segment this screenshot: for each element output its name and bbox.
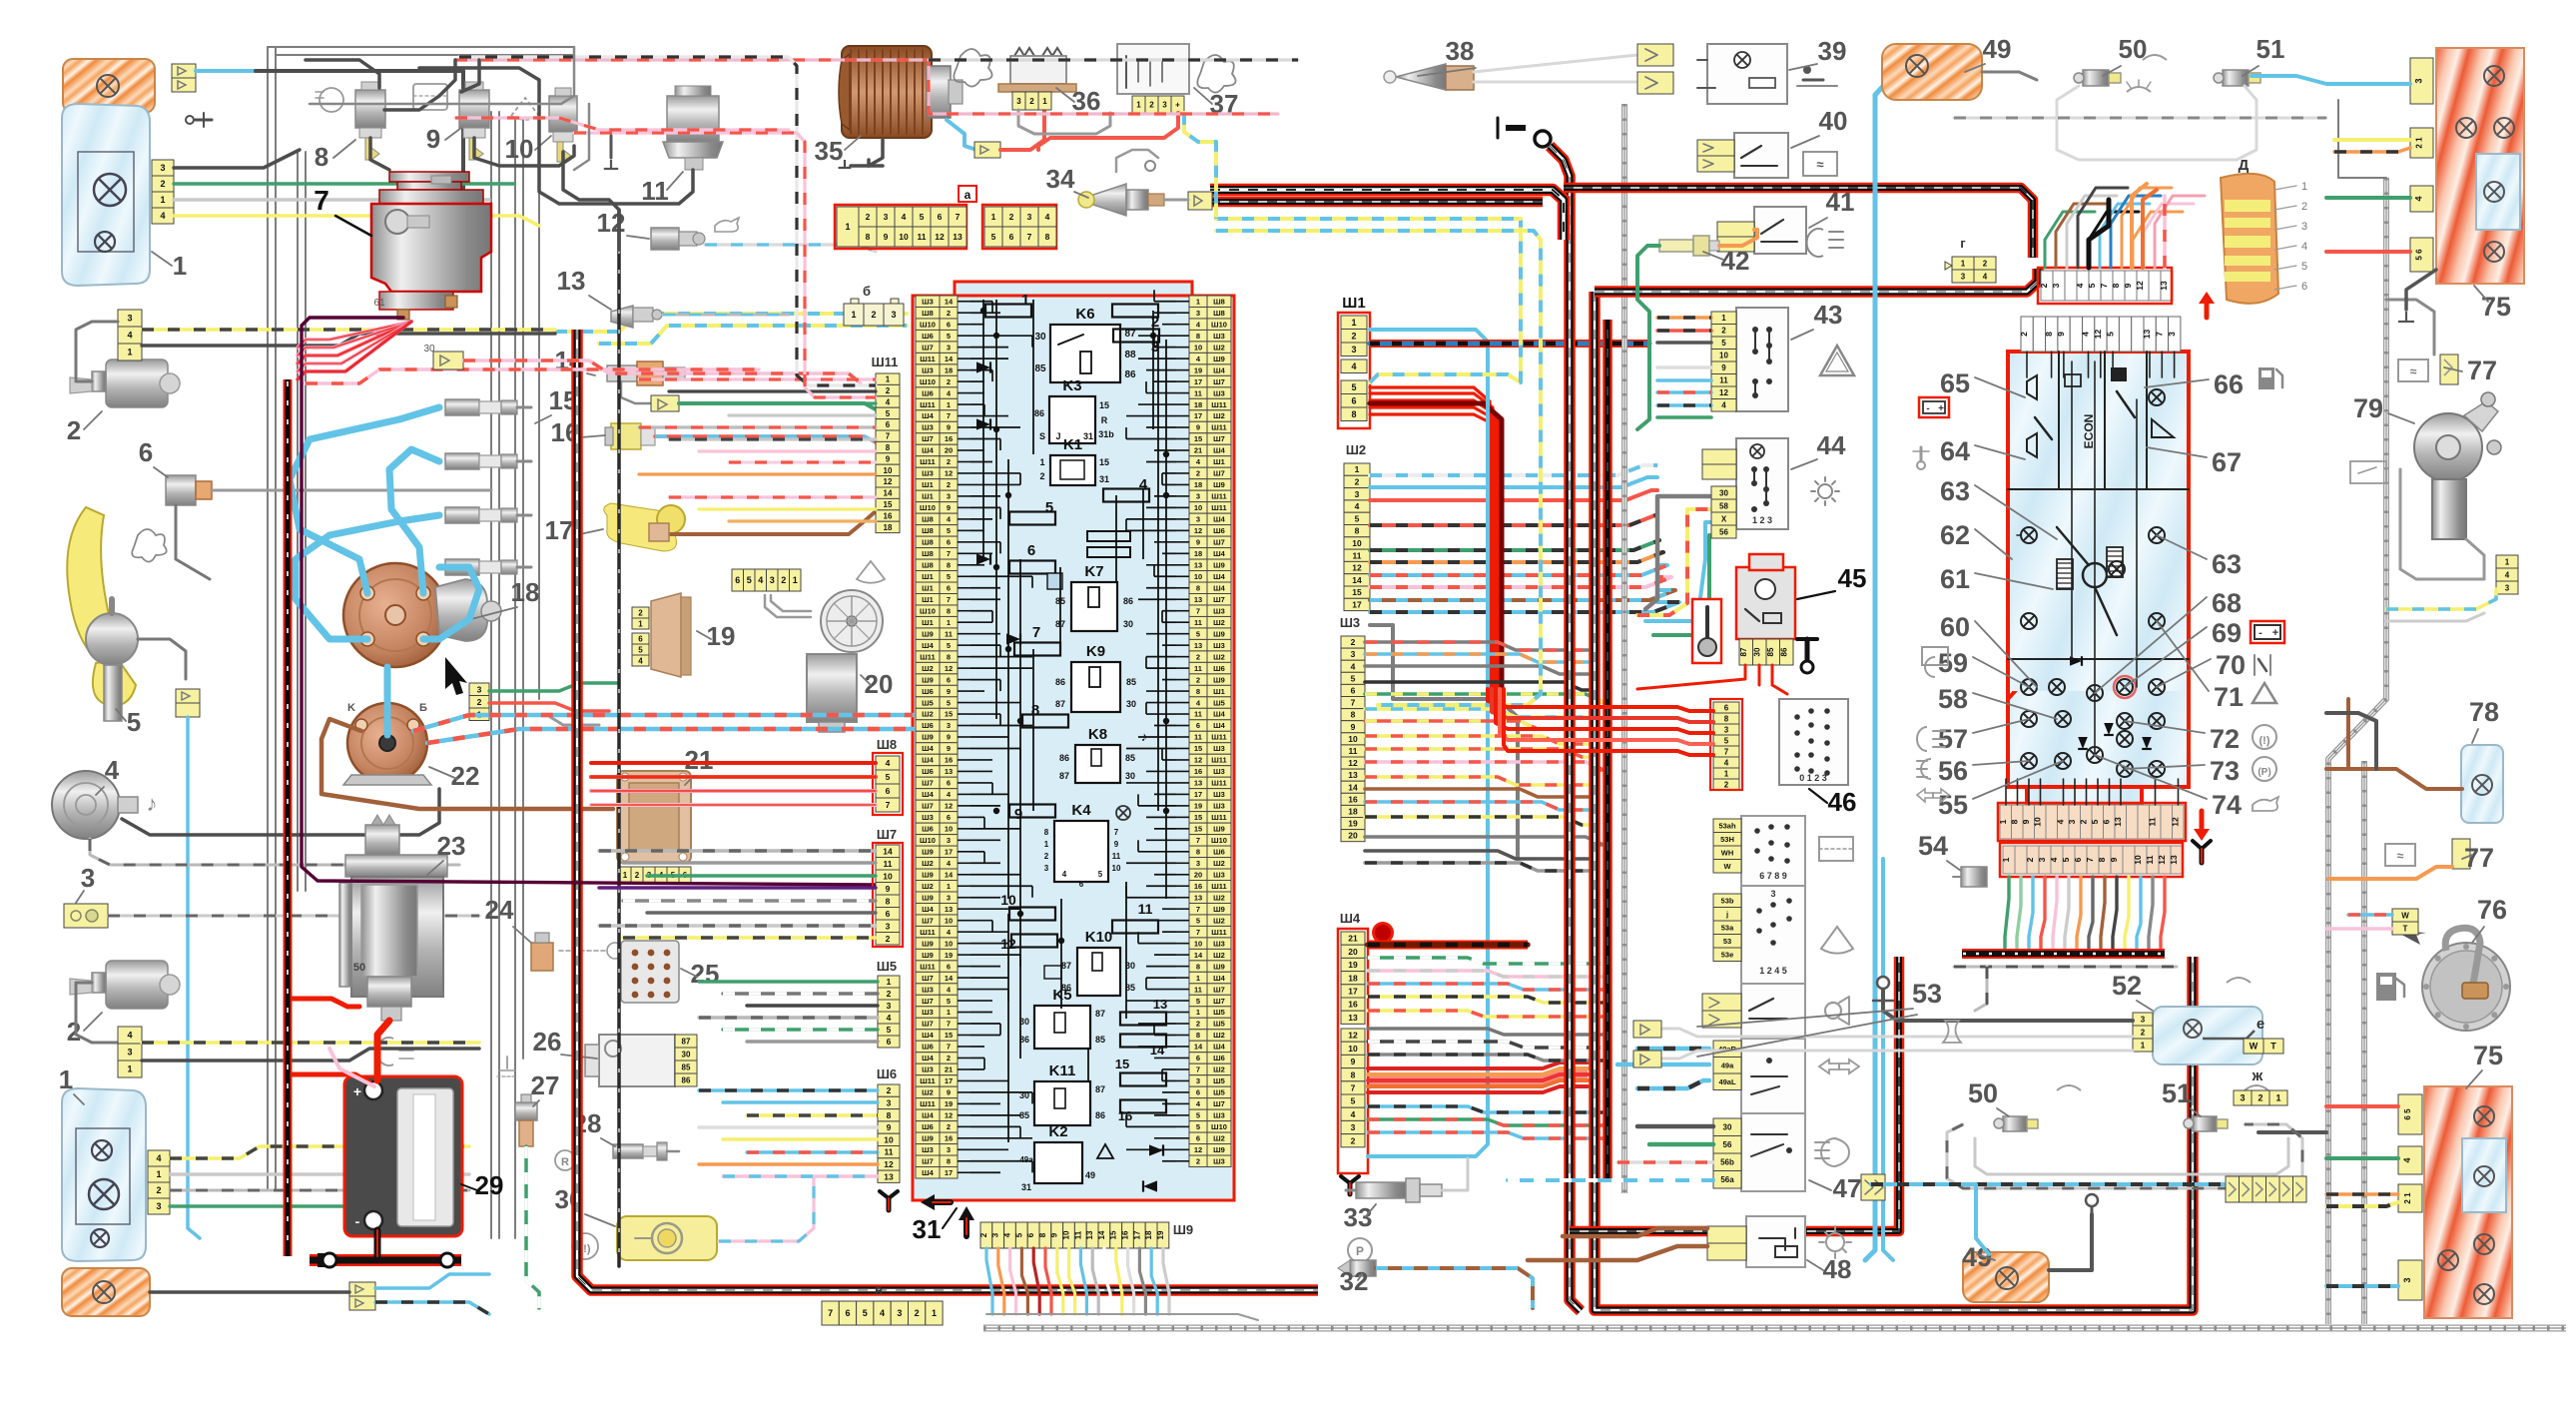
blower motor 35 bbox=[839, 46, 963, 138]
svg-text:8: 8 bbox=[1196, 583, 1200, 592]
svg-text:30: 30 bbox=[1034, 332, 1046, 343]
harness top link bbox=[1210, 190, 1564, 240]
svg-text:3: 3 bbox=[2067, 819, 2077, 824]
red arrow down bbox=[2194, 811, 2210, 841]
svg-text:11: 11 bbox=[2145, 855, 2155, 864]
svg-text:16: 16 bbox=[884, 511, 893, 520]
fuse F10 bbox=[1009, 908, 1055, 921]
speed sensor 13 bbox=[611, 306, 662, 328]
fuel sender 76 bbox=[2422, 928, 2510, 1031]
svg-text:Ш1: Ш1 bbox=[922, 480, 934, 489]
connector Ш9 bottom row bbox=[979, 1222, 1169, 1248]
harness horizontal to instrument bbox=[1595, 269, 2038, 292]
wire yellow-cyan vertical harness bbox=[1216, 217, 1521, 221]
svg-text:4: 4 bbox=[2075, 283, 2085, 288]
svg-text:5 6: 5 6 bbox=[2415, 249, 2424, 261]
svg-text:8: 8 bbox=[1196, 332, 1200, 341]
wire bundle into Ш7 bbox=[599, 851, 876, 938]
svg-text:85: 85 bbox=[682, 1063, 691, 1071]
svg-text:5: 5 bbox=[886, 409, 891, 418]
door switch 50 top bbox=[2074, 70, 2121, 86]
svg-text:50: 50 bbox=[2119, 34, 2148, 64]
svg-text:8: 8 bbox=[886, 443, 891, 452]
connector 40 yellow bbox=[1697, 140, 1734, 156]
svg-text:Ш3: Ш3 bbox=[1213, 744, 1225, 753]
wire 36 gray loop bbox=[1018, 110, 1110, 134]
connector 46 pins bbox=[1713, 702, 1739, 713]
svg-text:2: 2 bbox=[1196, 652, 1200, 661]
lamp icon K4 bbox=[1116, 806, 1130, 820]
svg-text:10: 10 bbox=[2133, 855, 2143, 865]
svg-text:4: 4 bbox=[127, 1031, 132, 1041]
svg-text:3: 3 bbox=[2051, 283, 2061, 288]
svg-text:15: 15 bbox=[1194, 825, 1202, 834]
svg-text:2: 2 bbox=[1039, 471, 1044, 481]
svg-text:2: 2 bbox=[2025, 857, 2035, 862]
svg-text:11: 11 bbox=[1073, 1230, 1082, 1239]
wire bundle Ш4 dark red hot bbox=[1368, 1063, 1588, 1092]
svg-text:1: 1 bbox=[1961, 259, 1966, 268]
svg-text:2 1: 2 1 bbox=[2415, 137, 2424, 149]
svg-text:8: 8 bbox=[947, 652, 951, 661]
wire bottom page bus bbox=[983, 1325, 2566, 1332]
svg-text:9: 9 bbox=[2021, 819, 2031, 824]
wire yellow-red to 44-58 bbox=[1637, 509, 1711, 615]
svg-text:14: 14 bbox=[945, 974, 954, 983]
svg-text:79: 79 bbox=[2353, 393, 2383, 423]
key icon 45 bbox=[1692, 599, 1721, 663]
svg-text:R: R bbox=[561, 1156, 569, 1168]
svg-text:6: 6 bbox=[947, 813, 951, 822]
svg-text:Ш10: Ш10 bbox=[1211, 1122, 1227, 1131]
door switch 51 top bbox=[2214, 70, 2260, 86]
svg-text:5: 5 bbox=[863, 1308, 868, 1318]
svg-text:5: 5 bbox=[991, 232, 996, 242]
svg-text:5: 5 bbox=[2087, 283, 2097, 288]
svg-text:9: 9 bbox=[1351, 1057, 1356, 1066]
svg-text:Ш5: Ш5 bbox=[1213, 698, 1225, 707]
tail lamp 75 bottom pins bbox=[2398, 1094, 2422, 1300]
svg-text:K9: K9 bbox=[1086, 643, 1105, 660]
svg-text:3: 3 bbox=[1351, 345, 1356, 354]
svg-text:6: 6 bbox=[1196, 721, 1200, 730]
icon fuel 76 bbox=[2376, 973, 2404, 1001]
connector 17 tan bbox=[649, 523, 669, 541]
svg-text:5: 5 bbox=[947, 572, 951, 581]
svg-text:8: 8 bbox=[1724, 714, 1729, 723]
relay K7 bbox=[1071, 582, 1117, 631]
svg-text:Ш6: Ш6 bbox=[1213, 1054, 1225, 1063]
svg-text:5: 5 bbox=[1045, 499, 1053, 516]
svg-text:55: 55 bbox=[1938, 790, 1968, 820]
wire gray extra top2 bbox=[461, 60, 479, 92]
svg-text:56: 56 bbox=[1719, 527, 1728, 536]
svg-text:a: a bbox=[965, 188, 971, 202]
svg-text:4: 4 bbox=[156, 1153, 161, 1163]
svg-text:12: 12 bbox=[1194, 1145, 1202, 1154]
svg-text:3: 3 bbox=[947, 492, 951, 501]
svg-text:6: 6 bbox=[845, 1308, 850, 1318]
svg-text:Ш4: Ш4 bbox=[922, 1031, 935, 1040]
svg-text:2: 2 bbox=[67, 1017, 81, 1047]
svg-text:58: 58 bbox=[1719, 501, 1728, 510]
battery 29 bbox=[344, 1076, 462, 1236]
svg-text:Ш8: Ш8 bbox=[1213, 309, 1225, 318]
turn arrows icon bbox=[1819, 1060, 1859, 1073]
svg-text:7: 7 bbox=[947, 1043, 951, 1052]
svg-text:1 2 4 5: 1 2 4 5 bbox=[1759, 966, 1787, 976]
svg-text:8: 8 bbox=[2097, 857, 2107, 862]
diode D4 bbox=[1006, 633, 1020, 644]
svg-text:11: 11 bbox=[1353, 550, 1362, 560]
heater switch 37 bbox=[1117, 44, 1189, 94]
icon oil 12 bbox=[715, 218, 739, 232]
svg-text:7: 7 bbox=[1032, 624, 1040, 641]
svg-text:8: 8 bbox=[887, 1110, 892, 1120]
connector strip 654321 bbox=[732, 569, 801, 591]
svg-text:11: 11 bbox=[945, 629, 953, 638]
svg-text:4: 4 bbox=[1003, 1232, 1012, 1237]
svg-text:12: 12 bbox=[2170, 817, 2180, 827]
svg-text:Ш4: Ш4 bbox=[1213, 721, 1226, 730]
svg-text:Ш2: Ш2 bbox=[1213, 893, 1225, 902]
svg-text:K5: K5 bbox=[1052, 987, 1071, 1004]
icon fuel pump 66 bbox=[2258, 367, 2282, 389]
svg-text:30: 30 bbox=[1723, 1123, 1732, 1132]
svg-text:26: 26 bbox=[533, 1027, 562, 1057]
icon parking 73 bbox=[2253, 757, 2276, 781]
svg-text:W: W bbox=[2250, 1042, 2258, 1052]
horn 17 bbox=[604, 503, 685, 551]
svg-text:WH: WH bbox=[1721, 848, 1734, 857]
svg-text:61: 61 bbox=[1940, 564, 1970, 594]
svg-text:2: 2 bbox=[477, 697, 482, 707]
wire drops from instrument strip bbox=[2005, 877, 2165, 950]
svg-text:4: 4 bbox=[105, 755, 120, 785]
wire Ш4-18 dark red bbox=[1368, 941, 1528, 950]
wire lamp bottom bbox=[150, 1290, 349, 1294]
svg-text:5: 5 bbox=[920, 212, 925, 222]
capacitor 24 bbox=[531, 933, 553, 971]
svg-text:T: T bbox=[2403, 924, 2408, 933]
warning lamp 30 bbox=[617, 1216, 717, 1260]
svg-text:10: 10 bbox=[2032, 817, 2042, 827]
svg-text:6: 6 bbox=[1196, 1054, 1200, 1063]
svg-text:5: 5 bbox=[1724, 736, 1729, 745]
svg-text:2: 2 bbox=[1724, 780, 1729, 789]
svg-text:6: 6 bbox=[947, 962, 951, 971]
icon exclam 72 bbox=[2253, 725, 2276, 749]
svg-text:9: 9 bbox=[947, 1088, 951, 1097]
wire 17 brown bbox=[667, 511, 876, 534]
svg-text:R: R bbox=[1101, 415, 1108, 425]
svg-text:5: 5 bbox=[887, 1025, 892, 1035]
wire 2 loop bbox=[76, 322, 118, 381]
svg-text:Ш11: Ш11 bbox=[920, 1099, 935, 1108]
svg-text:9: 9 bbox=[2123, 283, 2133, 288]
svg-text:1: 1 bbox=[2275, 1093, 2280, 1103]
svg-text:35: 35 bbox=[815, 136, 844, 166]
svg-text:5: 5 bbox=[1196, 1111, 1200, 1120]
svg-text:Ш2: Ш2 bbox=[1213, 1134, 1225, 1143]
svg-text:45: 45 bbox=[1838, 563, 1867, 593]
svg-text:29: 29 bbox=[475, 1170, 504, 1200]
svg-text:1: 1 bbox=[160, 195, 165, 205]
svg-text:6: 6 bbox=[1026, 1232, 1035, 1237]
tail lamp 75 top bulbs bbox=[2456, 66, 2514, 262]
svg-text:K11: K11 bbox=[1049, 1063, 1076, 1079]
svg-text:Ш3: Ш3 bbox=[1213, 388, 1225, 397]
svg-text:40: 40 bbox=[1819, 106, 1848, 136]
gray tee 49b bbox=[2091, 1206, 2094, 1214]
fuse F1 bbox=[985, 305, 1031, 318]
connector 321 ignition bbox=[469, 683, 489, 696]
svg-text:3: 3 bbox=[2167, 332, 2177, 337]
svg-text:3: 3 bbox=[887, 1098, 892, 1108]
wire left vertical bundle outer bbox=[267, 47, 269, 1189]
wire right page bus bbox=[2328, 178, 2386, 1324]
svg-text:12: 12 bbox=[884, 1159, 894, 1169]
fuse F5 bbox=[1009, 512, 1055, 525]
svg-text:5: 5 bbox=[1351, 382, 1356, 392]
relay 26 bbox=[585, 1035, 675, 1086]
heated glass switch 40 bbox=[1734, 133, 1788, 178]
svg-text:2: 2 bbox=[947, 1054, 951, 1063]
svg-text:19: 19 bbox=[1194, 802, 1202, 811]
wire orange 77 bbox=[2328, 867, 2452, 879]
svg-text:Ш11: Ш11 bbox=[1211, 882, 1226, 891]
fuse box pin stubs left bbox=[958, 302, 970, 1173]
svg-text:9: 9 bbox=[1050, 1232, 1059, 1237]
svg-text:3: 3 bbox=[160, 163, 165, 173]
connector 19 pins bbox=[632, 607, 649, 618]
fan icon 5 bbox=[132, 529, 166, 562]
svg-text:7: 7 bbox=[1351, 1082, 1356, 1092]
svg-text:9: 9 bbox=[887, 1122, 892, 1132]
wire bundle Ш3 to ignition switch bbox=[1365, 642, 1604, 871]
svg-text:Ш7: Ш7 bbox=[922, 1020, 934, 1029]
headlight top-left bbox=[62, 104, 150, 286]
svg-text:Ш2: Ш2 bbox=[922, 882, 934, 891]
svg-text:2: 2 bbox=[871, 310, 876, 320]
connector Ш5 bbox=[878, 976, 900, 988]
svg-text:Ш4: Ш4 bbox=[922, 1168, 935, 1177]
svg-text:19: 19 bbox=[1194, 365, 1202, 374]
svg-text:17: 17 bbox=[945, 1076, 953, 1085]
diode D2 bbox=[976, 418, 990, 429]
svg-text:9: 9 bbox=[1114, 840, 1119, 849]
svg-text:3: 3 bbox=[1196, 492, 1200, 501]
svg-text:1: 1 bbox=[947, 882, 951, 891]
svg-text:16: 16 bbox=[945, 434, 953, 443]
heater icon bbox=[1044, 966, 1061, 979]
svg-text:5: 5 bbox=[2105, 332, 2115, 337]
harness bottom left extension bbox=[1570, 957, 1899, 1231]
svg-text:4: 4 bbox=[2301, 241, 2307, 253]
svg-text:11: 11 bbox=[1194, 388, 1202, 397]
svg-text:86: 86 bbox=[1095, 1110, 1105, 1120]
svg-text:9: 9 bbox=[884, 232, 889, 242]
svg-text:10: 10 bbox=[1719, 352, 1728, 360]
svg-text:36: 36 bbox=[1072, 86, 1101, 116]
icon rays 51b bbox=[2245, 1085, 2268, 1090]
svg-text:K: K bbox=[347, 702, 355, 714]
svg-text:2: 2 bbox=[2141, 1028, 2146, 1037]
svg-text:8: 8 bbox=[1044, 828, 1049, 837]
connector bottom-left bbox=[349, 1282, 375, 1310]
svg-text:2: 2 bbox=[1196, 1156, 1200, 1165]
svg-text:1: 1 bbox=[1196, 297, 1200, 306]
connector 2b pins bbox=[118, 1027, 142, 1044]
svg-text:4: 4 bbox=[1045, 212, 1050, 222]
svg-text:K1: K1 bbox=[1063, 436, 1082, 453]
svg-text:15: 15 bbox=[945, 710, 953, 719]
svg-text:2: 2 bbox=[67, 415, 81, 445]
svg-text:1: 1 bbox=[127, 1064, 132, 1074]
svg-text:1: 1 bbox=[887, 977, 892, 987]
svg-text:Ш3: Ш3 bbox=[1213, 767, 1225, 776]
wire 2b loop bbox=[76, 983, 118, 1043]
svg-text:K3: K3 bbox=[1062, 377, 1081, 394]
svg-text:11: 11 bbox=[1194, 985, 1202, 994]
svg-text:Ш5: Ш5 bbox=[877, 959, 897, 974]
svg-text:34: 34 bbox=[1046, 164, 1075, 194]
svg-text:3: 3 bbox=[1355, 489, 1360, 499]
svg-text:Ш3: Ш3 bbox=[1213, 332, 1225, 341]
svg-text:Ш9: Ш9 bbox=[1213, 962, 1225, 971]
svg-text:30: 30 bbox=[1125, 771, 1135, 781]
svg-text:1: 1 bbox=[1355, 464, 1360, 474]
connector Ш2 bbox=[1344, 463, 1370, 475]
wire red bundle alternator bbox=[298, 322, 411, 379]
svg-text:63: 63 bbox=[1940, 476, 1970, 506]
svg-text:Ш3: Ш3 bbox=[1340, 615, 1360, 630]
svg-text:10: 10 bbox=[1352, 538, 1362, 548]
connector Ш6 bbox=[878, 1084, 900, 1096]
red arrow up top bbox=[2199, 292, 2215, 318]
svg-text:21: 21 bbox=[1194, 446, 1202, 455]
svg-text:30: 30 bbox=[1123, 619, 1133, 629]
connector 35 bbox=[974, 142, 1000, 158]
heater resistor 36 bbox=[998, 48, 1076, 92]
svg-text:8: 8 bbox=[1351, 710, 1356, 720]
svg-text:86: 86 bbox=[1124, 369, 1136, 380]
svg-text:K8: K8 bbox=[1088, 726, 1107, 743]
svg-text:14: 14 bbox=[945, 354, 954, 363]
svg-text:5: 5 bbox=[1098, 870, 1103, 879]
svg-text:7: 7 bbox=[1351, 698, 1356, 708]
wire 42 orange bbox=[1719, 230, 1757, 246]
ground 45 bbox=[1797, 639, 1817, 673]
svg-text:11: 11 bbox=[1194, 618, 1202, 627]
svg-text:5: 5 bbox=[2061, 857, 2071, 862]
relay K8 bbox=[1075, 745, 1120, 783]
harness mid extra bbox=[1603, 320, 1612, 1178]
wire 3 bbox=[108, 915, 479, 918]
svg-text:31b: 31b bbox=[1098, 429, 1114, 439]
relay K1 bbox=[1050, 455, 1095, 485]
fuse F14 bbox=[1120, 1035, 1166, 1048]
svg-text:11: 11 bbox=[884, 859, 893, 869]
svg-text:6: 6 bbox=[2101, 819, 2111, 824]
svg-text:13: 13 bbox=[884, 1171, 894, 1181]
svg-text:4: 4 bbox=[887, 1013, 892, 1023]
svg-text:15: 15 bbox=[1115, 1057, 1129, 1071]
svg-text:10: 10 bbox=[1348, 1044, 1358, 1054]
svg-text:5: 5 bbox=[947, 997, 951, 1006]
svg-text:Ш10: Ш10 bbox=[920, 503, 936, 512]
svg-text:Ш6: Ш6 bbox=[877, 1066, 897, 1081]
svg-text:Ш3: Ш3 bbox=[922, 1145, 934, 1154]
svg-text:76: 76 bbox=[2477, 895, 2507, 925]
svg-text:Ш2: Ш2 bbox=[1213, 1065, 1225, 1074]
svg-text:9: 9 bbox=[1014, 806, 1022, 823]
svg-text:86: 86 bbox=[1034, 408, 1044, 418]
connector 41 yellow bbox=[1717, 222, 1754, 237]
svg-text:T: T bbox=[2270, 1042, 2276, 1052]
svg-text:Ш4: Ш4 bbox=[1213, 515, 1226, 524]
svg-text:10: 10 bbox=[505, 134, 534, 164]
svg-text:4: 4 bbox=[638, 656, 643, 665]
svg-text:Ш6: Ш6 bbox=[922, 687, 934, 696]
svg-text:Ш11: Ш11 bbox=[1211, 733, 1226, 742]
svg-text:Ш6: Ш6 bbox=[922, 767, 934, 776]
wire 52 white pair bbox=[1661, 1029, 2133, 1037]
svg-text:3: 3 bbox=[991, 1232, 1000, 1237]
wire gray 49b bbox=[2049, 1214, 2092, 1270]
svg-text:Ш1: Ш1 bbox=[1342, 295, 1365, 312]
fog lamp 38 bbox=[1384, 64, 1474, 90]
svg-text:46: 46 bbox=[1828, 787, 1857, 817]
relay K6 bbox=[1050, 325, 1120, 382]
wiper icon 20 bbox=[857, 561, 885, 583]
svg-text:16: 16 bbox=[1348, 1000, 1358, 1010]
svg-text:4: 4 bbox=[2049, 857, 2059, 862]
svg-text:10: 10 bbox=[1194, 572, 1202, 581]
svg-text:2: 2 bbox=[947, 377, 951, 386]
horn 4 bbox=[52, 771, 138, 839]
wires to 75 top bbox=[2252, 76, 2410, 84]
fuse F3 bbox=[1113, 330, 1159, 343]
icon arrows 55 bbox=[1917, 789, 1949, 802]
svg-text:9: 9 bbox=[947, 687, 951, 696]
ground 10 bbox=[610, 160, 612, 169]
svg-text:1: 1 bbox=[851, 310, 856, 320]
svg-text:4: 4 bbox=[1724, 758, 1729, 767]
svg-text:1: 1 bbox=[932, 1308, 937, 1318]
svg-text:Ш10: Ш10 bbox=[920, 320, 936, 329]
icon fog 57 bbox=[1917, 727, 1945, 751]
svg-text:13: 13 bbox=[1153, 997, 1167, 1012]
svg-text:6: 6 bbox=[947, 779, 951, 788]
svg-text:11: 11 bbox=[1194, 733, 1202, 742]
svg-text:6: 6 bbox=[947, 538, 951, 547]
fuse F4 bbox=[1103, 489, 1149, 502]
svg-text:Ш2: Ш2 bbox=[1213, 951, 1225, 960]
svg-text:Ш3: Ш3 bbox=[922, 469, 934, 478]
connector 19 bbox=[651, 593, 691, 677]
svg-text:12: 12 bbox=[2135, 281, 2145, 291]
diode D1 bbox=[976, 361, 990, 372]
svg-text:3: 3 bbox=[1961, 272, 1966, 281]
svg-text:1: 1 bbox=[173, 251, 187, 281]
icon lever 70 bbox=[2254, 655, 2270, 675]
svg-text:8: 8 bbox=[1351, 409, 1356, 419]
svg-text:Ш4: Ш4 bbox=[922, 905, 935, 914]
svg-text:K2: K2 bbox=[1048, 1123, 1067, 1140]
svg-text:7: 7 bbox=[956, 212, 961, 222]
svg-text:63: 63 bbox=[2212, 549, 2242, 579]
